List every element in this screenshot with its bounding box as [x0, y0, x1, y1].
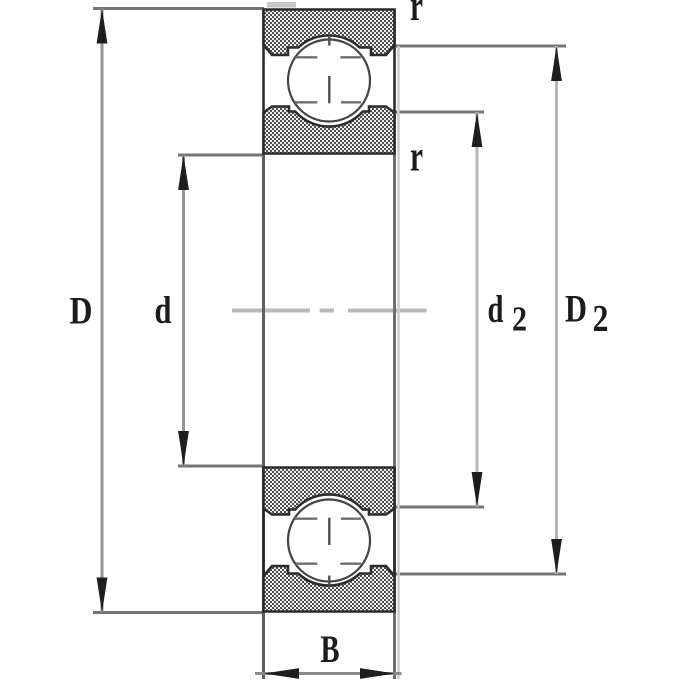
extension line D top — [93, 7, 264, 10]
extension line d2 top — [394, 111, 484, 114]
bearing side face right bottom — [393, 468, 396, 612]
arrow D down — [97, 578, 108, 613]
svg-text:r: r — [410, 134, 423, 181]
arrow B left — [264, 668, 299, 679]
extension line D2 top — [394, 45, 566, 48]
extension line d bottom — [178, 465, 264, 468]
ball top centerline vertical — [328, 36, 330, 104]
top bearing section — [264, 10, 395, 154]
svg-text:d: d — [488, 288, 504, 331]
extension line B left (bearing side face silhouette) — [262, 153, 265, 679]
bottom bearing section (mirror of top) — [264, 468, 395, 612]
arrow B right — [360, 668, 395, 679]
extension line D bottom — [93, 611, 264, 614]
ball top centerline horizontal lower — [295, 101, 361, 103]
arrow d down — [178, 431, 189, 466]
ball bottom centerline vertical — [328, 518, 330, 586]
extension line B right (bearing side face silhouette) — [393, 153, 396, 679]
svg-text:2: 2 — [512, 300, 527, 339]
bearing side face left bottom — [262, 468, 265, 612]
svg-text:r: r — [410, 0, 423, 30]
ball top — [288, 40, 370, 122]
dimension line d2 — [476, 112, 479, 507]
bearing side face left — [262, 10, 265, 154]
arrow d2 down — [472, 472, 483, 507]
inner ring top (hatched) — [264, 107, 395, 154]
outer ring bottom (hatched) — [264, 566, 395, 612]
ball bottom centerline horizontal lower — [295, 518, 361, 520]
svg-text:d: d — [155, 289, 172, 332]
arrow D up — [97, 9, 108, 44]
extension line d top — [178, 154, 264, 157]
arrow D2 up — [551, 46, 562, 81]
ghost line right of bearing — [397, 46, 400, 679]
ball bottom centerline horizontal upper — [296, 563, 362, 565]
ball top centerline horizontal upper — [296, 56, 362, 58]
svg-text:D: D — [565, 288, 587, 331]
svg-text:D: D — [70, 290, 93, 333]
inner ring bottom (hatched) — [264, 468, 395, 515]
arrow d up — [178, 155, 189, 190]
dimension line D — [101, 9, 104, 613]
bearing side face right — [393, 10, 396, 154]
extension line D2 bottom — [394, 573, 566, 576]
bearing axis centerline — [232, 309, 427, 313]
svg-text:2: 2 — [593, 298, 609, 340]
outer ring top (hatched) — [264, 10, 395, 56]
arrow d2 up — [472, 112, 483, 147]
ball bottom — [288, 500, 370, 582]
svg-text:B: B — [321, 628, 340, 671]
dimension line d — [182, 155, 185, 466]
dimension line D2 — [555, 46, 558, 574]
arrow D2 down — [551, 539, 562, 574]
dimension line B — [255, 672, 402, 675]
ghost mark above bearing top left — [267, 2, 296, 8]
extension line d2 bottom — [394, 506, 484, 509]
